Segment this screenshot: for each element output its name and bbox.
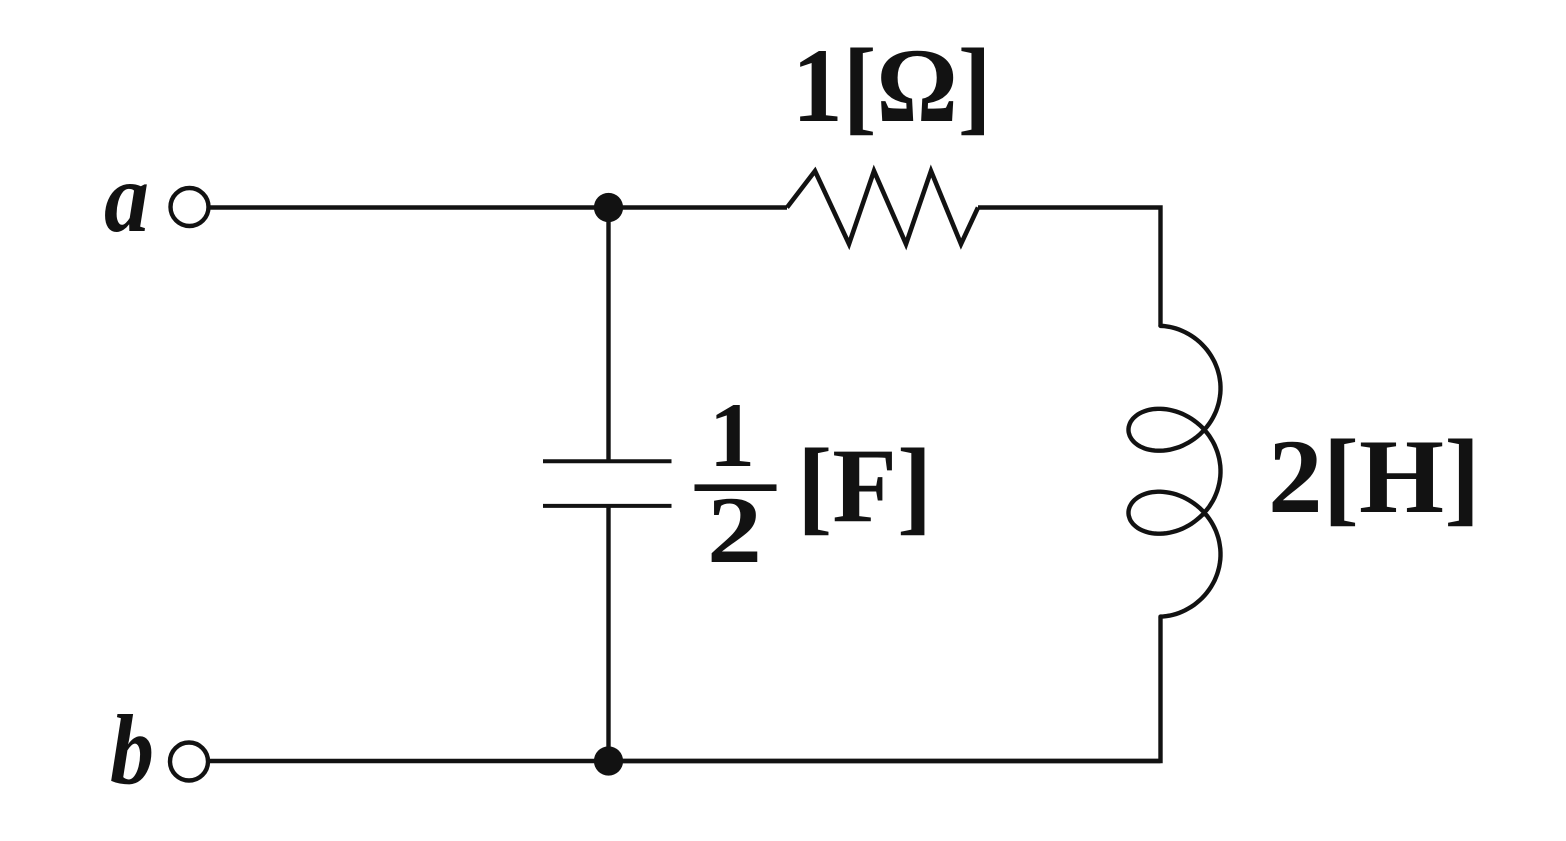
svg-text:1[Ω]: 1[Ω]: [792, 27, 992, 144]
capacitor C top plate: [543, 459, 672, 463]
wire bottom from terminal b to junction: [208, 759, 1161, 763]
wire top right from resistor to corner: [978, 208, 1161, 327]
capacitor value fraction bar: [695, 484, 777, 491]
wire middle branch upper (node to capacitor): [606, 208, 610, 462]
inductor L coil: [1129, 326, 1221, 617]
svg-text:a: a: [104, 142, 149, 253]
node junction dot top: [594, 193, 623, 222]
svg-text:[F]: [F]: [797, 427, 932, 544]
node junction dot bottom: [594, 746, 623, 775]
svg-text:2[H]: 2[H]: [1268, 418, 1481, 535]
terminal b circle: [170, 743, 208, 781]
svg-text:b: b: [110, 694, 154, 805]
svg-text:2: 2: [707, 477, 762, 583]
terminal a circle: [171, 188, 209, 226]
resistor R 1 ohm zigzag: [787, 171, 978, 244]
svg-text:1: 1: [709, 384, 755, 486]
wire top from terminal a to resistor: [209, 205, 788, 209]
wire right lower from inductor to bottom corner: [609, 617, 1161, 761]
wire middle branch lower (capacitor to bottom junction): [606, 506, 610, 761]
capacitor C bottom plate: [543, 504, 672, 508]
